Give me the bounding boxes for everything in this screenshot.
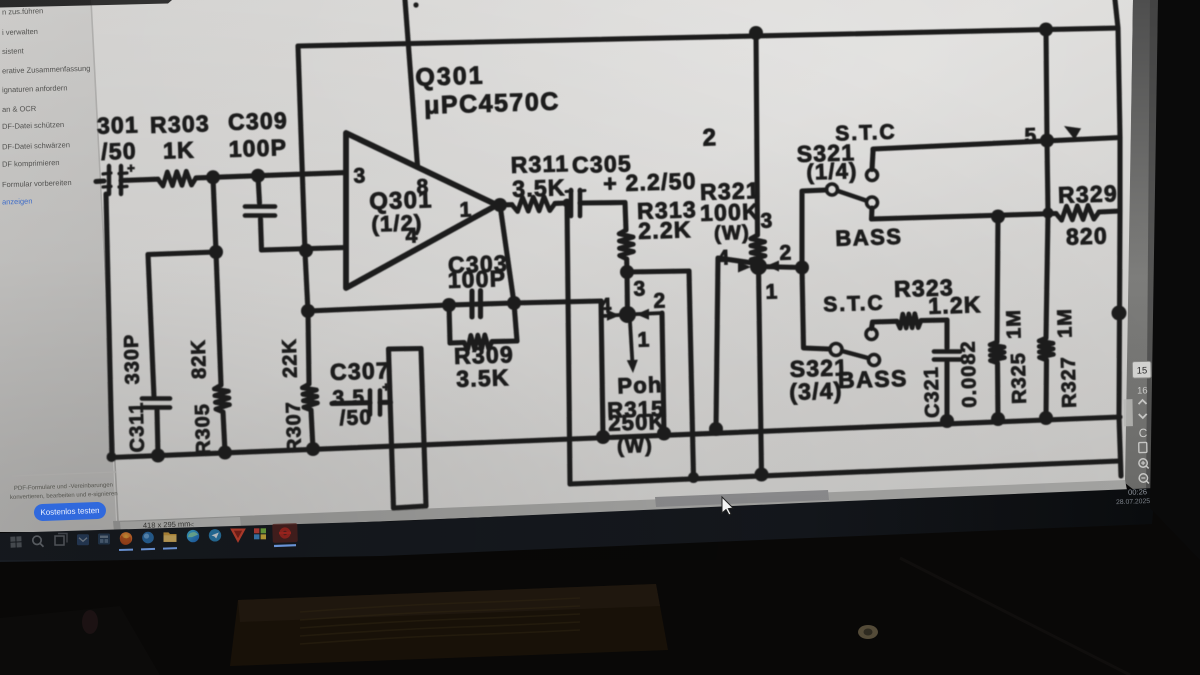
node op-amp output bbox=[493, 198, 507, 212]
label C305 value 2.2/50 bbox=[603, 168, 697, 197]
svg-text:3.5K: 3.5K bbox=[512, 174, 566, 202]
svg-text:2: 2 bbox=[702, 124, 717, 151]
wire C307 top jog bbox=[389, 346, 422, 352]
wire N1 stub right bbox=[628, 313, 663, 315]
label pin 4 bbox=[405, 224, 419, 247]
svg-text:418 x 295 mm: 418 x 295 mm bbox=[143, 519, 191, 530]
svg-text:330P: 330P bbox=[121, 333, 144, 384]
svg-text:(3/4): (3/4) bbox=[789, 377, 843, 405]
wire x690 drop bbox=[689, 271, 694, 478]
resistor R307 bbox=[302, 384, 317, 410]
resistor R323 bbox=[897, 314, 921, 329]
resistor R325 bbox=[990, 342, 1004, 363]
label Q301 (1/2) bbox=[371, 210, 423, 237]
resistor R329 bbox=[1056, 205, 1099, 220]
node R327-bus bbox=[1039, 411, 1053, 425]
node R305-bus bbox=[218, 446, 232, 460]
label R309 value 3.5K bbox=[456, 364, 510, 392]
wire STCb up-right bbox=[872, 321, 898, 328]
label S321 bbox=[796, 139, 855, 167]
arrow at top right bbox=[1064, 126, 1081, 140]
switch S321 (1/4) pole contact bbox=[827, 184, 838, 195]
svg-text:R307: R307 bbox=[283, 401, 306, 453]
switch S321 (3/4) pole contact bbox=[830, 344, 842, 356]
svg-text:1: 1 bbox=[765, 280, 779, 303]
node switch riser bbox=[795, 261, 809, 275]
label uPC4570C bbox=[424, 87, 561, 119]
wire C305 left drop bbox=[567, 203, 570, 484]
resistor R313 bbox=[619, 230, 633, 259]
label S.T.C (3/4) bbox=[823, 292, 885, 317]
svg-text:301: 301 bbox=[97, 111, 140, 138]
switch S321 (3/4) lever bbox=[842, 351, 868, 358]
svg-text:μPC4570C: μPC4570C bbox=[424, 87, 561, 119]
wire C305 to corner bbox=[580, 200, 625, 206]
label C301 value /50 bbox=[101, 138, 137, 165]
svg-text:(W): (W) bbox=[714, 222, 750, 245]
wire R325 top lead bbox=[997, 217, 998, 343]
capacitor C303 bbox=[472, 291, 481, 317]
wire R305 top lead bbox=[216, 252, 221, 385]
label pin 3 at R321 bbox=[760, 209, 774, 232]
label Q301 top bbox=[415, 62, 485, 92]
wire C321 top lead bbox=[944, 320, 949, 348]
pot wiper arrow bbox=[627, 322, 638, 373]
resistor R311 bbox=[512, 197, 555, 212]
svg-text:an & OCR: an & OCR bbox=[2, 104, 37, 114]
wire R313-node to x690 drop bbox=[627, 271, 689, 272]
wire lower bus bbox=[570, 461, 1119, 484]
label R305 value 82K bbox=[188, 339, 211, 379]
resistor R303 bbox=[158, 171, 196, 186]
svg-text:R325: R325 bbox=[1008, 352, 1031, 404]
wire N1 stub left bbox=[603, 315, 628, 317]
svg-text:3: 3 bbox=[760, 209, 774, 232]
switch S321 (3/4) throw STC bbox=[866, 329, 877, 340]
node pot right-bus bbox=[657, 427, 671, 441]
label C307 value 3.5 bbox=[332, 386, 366, 410]
capacitor C307 (electrolytic) bbox=[370, 379, 390, 414]
svg-text:1: 1 bbox=[459, 198, 473, 221]
wire C311 top lead bbox=[148, 255, 154, 398]
label R325 bbox=[1008, 352, 1031, 404]
node bus left corner bbox=[107, 452, 117, 462]
svg-text:C: C bbox=[1139, 426, 1148, 440]
resistor R305 bbox=[214, 385, 229, 412]
label BASS (3/4) bbox=[838, 365, 909, 393]
label 2 mid-top bbox=[702, 124, 717, 151]
svg-text:R327: R327 bbox=[1058, 356, 1081, 408]
svg-text:C321: C321 bbox=[921, 366, 944, 418]
svg-text:(W): (W) bbox=[617, 435, 653, 458]
wire input to R303 bbox=[121, 179, 158, 180]
wire C311 bottom lead bbox=[157, 409, 158, 455]
node BASS/R325 bbox=[991, 210, 1005, 224]
label R307 bbox=[283, 401, 306, 453]
node J4 V1/pin2 line bbox=[299, 244, 313, 258]
svg-text:3.5K: 3.5K bbox=[456, 364, 510, 392]
node lower bus / R321 vert bbox=[755, 468, 769, 482]
svg-text:1K: 1K bbox=[163, 137, 196, 164]
wire J1 to node J2 bbox=[213, 176, 258, 178]
wire C321 bottom lead bbox=[944, 361, 949, 421]
svg-text:R303: R303 bbox=[150, 110, 211, 138]
svg-text:sistent: sistent bbox=[2, 46, 25, 56]
label BASS bbox=[835, 224, 903, 251]
svg-text:S.T.C: S.T.C bbox=[835, 121, 897, 146]
node R325-bus bbox=[991, 412, 1005, 426]
node STC/R327 vertical bbox=[1040, 134, 1054, 148]
wire R303 to node J1 bbox=[196, 175, 213, 181]
wire R323 to C321 corner bbox=[921, 317, 947, 323]
arrow into N1 left bbox=[607, 310, 620, 321]
node R327/BASS crossing bbox=[1043, 208, 1054, 219]
node N1 pot wiper top bbox=[619, 306, 636, 323]
label pin 3 of pot bbox=[633, 277, 647, 300]
label pin 5 bbox=[1024, 124, 1038, 147]
wire BASS line to R329 bbox=[872, 214, 1057, 220]
svg-text:3: 3 bbox=[353, 164, 367, 187]
label S321 (3/4) name bbox=[789, 354, 848, 382]
wire corner down to R313 bbox=[625, 203, 626, 231]
switch S321 (1/4) throw BASS bbox=[867, 197, 878, 208]
svg-text:S.T.C: S.T.C bbox=[823, 292, 885, 317]
label C307 bbox=[330, 357, 391, 385]
node J1 bbox=[206, 170, 220, 184]
label C305 bbox=[572, 150, 633, 178]
svg-text:1.2K: 1.2K bbox=[928, 291, 982, 319]
wire N2 down to lower bus bbox=[759, 267, 762, 475]
svg-text:2: 2 bbox=[653, 289, 667, 312]
wire C307 bottom joiner bbox=[394, 506, 427, 508]
label R313 bbox=[637, 196, 698, 224]
wire R309 to loop right corner bbox=[492, 338, 517, 344]
wire loop left vertical bbox=[449, 305, 450, 343]
switch S321 (1/4) lever bbox=[838, 191, 866, 201]
svg-text:Poh: Poh bbox=[617, 372, 663, 398]
wire bus1 riser to N2 bbox=[716, 258, 753, 429]
wire input left tail bbox=[96, 178, 104, 184]
label R311 bbox=[510, 150, 569, 178]
label R303 value 1K bbox=[163, 137, 196, 164]
wire C307 right lead bbox=[380, 400, 391, 405]
node J5 V1/feedback line bbox=[301, 304, 315, 318]
wire R325 bottom lead bbox=[995, 363, 1001, 419]
svg-text:16: 16 bbox=[1137, 385, 1148, 396]
arrow into N2 left bbox=[738, 262, 751, 273]
wire top supply rail bbox=[298, 28, 1118, 46]
svg-text:anzeigen: anzeigen bbox=[2, 197, 33, 207]
label R327 bbox=[1058, 356, 1081, 408]
wire stray mark bbox=[413, 2, 418, 7]
svg-text:100P: 100P bbox=[228, 134, 287, 162]
label C321 bbox=[921, 366, 944, 418]
capacitor C309 bbox=[245, 207, 275, 216]
label Q301 inside bbox=[369, 186, 433, 215]
svg-text:28.07.2025: 28.07.2025 bbox=[1116, 498, 1150, 506]
node C311-bus bbox=[151, 449, 165, 463]
node pot left-bus bbox=[596, 430, 610, 444]
wire pot left rail bbox=[601, 301, 603, 437]
wire C307 left lead bbox=[332, 400, 370, 406]
label R315 (W) bbox=[617, 435, 653, 458]
wire R307 bottom lead bbox=[311, 410, 313, 449]
label pin 4 at N2 bbox=[717, 246, 731, 269]
label S.T.C bbox=[835, 121, 897, 146]
node R307-bus bbox=[306, 442, 320, 456]
node C305 left lead bbox=[563, 199, 572, 208]
svg-text:0.0082: 0.0082 bbox=[957, 340, 981, 408]
label R311 value 3.5K bbox=[512, 174, 566, 202]
label C303 bbox=[448, 250, 509, 278]
label R307 value 22K bbox=[279, 338, 302, 378]
svg-text:R305: R305 bbox=[192, 403, 215, 455]
wire N2 to switch riser bbox=[759, 267, 803, 268]
label pin 1 bbox=[459, 198, 473, 221]
label node 301 bbox=[97, 111, 140, 138]
svg-text:1M: 1M bbox=[1003, 309, 1026, 339]
arrow into N2 right bbox=[766, 261, 779, 272]
svg-text:/50: /50 bbox=[339, 406, 373, 430]
node riser-bus1 bbox=[709, 422, 723, 436]
label R321 bbox=[700, 177, 761, 205]
label C311 value 330P bbox=[121, 333, 144, 384]
svg-text:i verwalten: i verwalten bbox=[2, 27, 38, 37]
wire ground bus bbox=[110, 417, 1120, 458]
switch S321 (1/4) throw STC bbox=[867, 170, 878, 181]
wire C309 to op-amp pin2 bbox=[262, 248, 347, 251]
node R313 lower bbox=[620, 265, 634, 279]
svg-text:1M: 1M bbox=[1054, 308, 1077, 338]
label C307 value /50 bbox=[339, 406, 373, 430]
wire R305 bottom lead bbox=[223, 412, 225, 452]
wire J1 down to J3 bbox=[213, 177, 216, 252]
node top rail / R321 branch bbox=[749, 26, 763, 40]
capacitor C305 (electrolytic) bbox=[566, 190, 585, 216]
svg-text:5: 5 bbox=[1024, 124, 1038, 147]
svg-text:(1/2): (1/2) bbox=[371, 210, 423, 237]
label R325 value 1M bbox=[1003, 309, 1026, 339]
wire BASS throw down bbox=[869, 208, 875, 219]
node x690-bus2 bbox=[688, 472, 699, 483]
node loop left bbox=[442, 298, 456, 312]
label R321 value 100K bbox=[700, 198, 761, 226]
node J3 bbox=[209, 245, 223, 259]
label pin 1 at N1 bbox=[637, 328, 651, 351]
label C309 bbox=[228, 107, 289, 135]
label R309 bbox=[454, 341, 515, 369]
switch S321 (3/4) throw BASS bbox=[869, 355, 880, 366]
label pin 4 at N1 bbox=[599, 294, 613, 317]
wire riser up to S321a pole bbox=[802, 190, 826, 268]
label R323 value 1.2K bbox=[928, 291, 982, 319]
wire loop right vertical bbox=[514, 303, 517, 341]
node J2 bbox=[251, 169, 265, 183]
svg-text:BASS: BASS bbox=[835, 224, 903, 251]
label R305 bbox=[192, 403, 215, 455]
svg-text:BASS: BASS bbox=[838, 365, 909, 393]
node right vertical mid bbox=[1112, 306, 1127, 321]
wire pin-8 supply drop bbox=[405, 0, 418, 166]
wire rail corner down (V1) bbox=[298, 46, 309, 384]
label Poh bbox=[617, 372, 663, 398]
svg-text:3: 3 bbox=[633, 277, 647, 300]
wire J5 feedback line bbox=[308, 301, 601, 311]
wire R311 to C305 bbox=[555, 200, 566, 205]
label pin 8 bbox=[416, 175, 430, 198]
wire J3 left to C311 corner bbox=[148, 252, 216, 255]
wire pot right rail bbox=[662, 313, 664, 434]
wire right vertical bbox=[1115, 0, 1121, 476]
svg-text:n zus.führen: n zus.führen bbox=[2, 6, 44, 16]
svg-text:100P: 100P bbox=[447, 265, 506, 293]
label pin 1 at N2 bbox=[765, 280, 779, 303]
wire R313 to node bbox=[624, 259, 629, 272]
label S321 (1/4) bbox=[806, 158, 858, 185]
wire R321 branch vertical bbox=[756, 33, 758, 235]
svg-text:2: 2 bbox=[779, 241, 793, 264]
wire output to R311 bbox=[497, 202, 512, 207]
label R329 bbox=[1058, 180, 1119, 208]
svg-text:Q301: Q301 bbox=[415, 62, 485, 92]
wire J2 to op-amp pin3 bbox=[258, 173, 346, 176]
svg-text:R329: R329 bbox=[1058, 180, 1119, 208]
label C311 bbox=[126, 401, 149, 452]
connector J301 input jack bbox=[103, 160, 135, 194]
svg-text:<: < bbox=[190, 522, 194, 529]
wire C309 top lead bbox=[258, 176, 260, 203]
label R329 value 820 bbox=[1066, 222, 1109, 249]
resistor R309 bbox=[464, 335, 492, 350]
svg-text:2.2K: 2.2K bbox=[638, 216, 692, 244]
node loop right bbox=[507, 296, 521, 310]
svg-text:00:26: 00:26 bbox=[1128, 487, 1147, 497]
svg-text:(1/4): (1/4) bbox=[806, 158, 858, 185]
svg-text:15: 15 bbox=[1137, 365, 1148, 376]
label R315 bbox=[607, 396, 665, 423]
wire loop bottom to R309 bbox=[450, 340, 464, 346]
svg-text:82K: 82K bbox=[188, 339, 211, 379]
wire node to pot node N1 bbox=[624, 272, 630, 313]
label pin 2 at N1 bbox=[653, 289, 667, 312]
wire riser down to S321b bbox=[802, 268, 829, 350]
label C321 value 0.0082 bbox=[957, 340, 981, 408]
node N2 switch feed bbox=[750, 258, 767, 275]
node top rail / R327 branch bbox=[1039, 23, 1053, 37]
wire C309 bottom lead bbox=[261, 219, 262, 250]
label R327 value 1M bbox=[1054, 308, 1077, 338]
wire STC line bbox=[873, 138, 1120, 153]
label R321 (W) bbox=[714, 222, 750, 245]
wire R327 vertical upper bbox=[1046, 30, 1048, 339]
svg-text:/50: /50 bbox=[101, 138, 137, 165]
wire C307 vertical bbox=[389, 349, 394, 508]
label R313 value 2.2K bbox=[638, 216, 692, 244]
label pin 3 bbox=[353, 164, 367, 187]
label R303 bbox=[150, 110, 211, 138]
label C303 value 100P bbox=[447, 265, 506, 293]
wire input ground drop bbox=[106, 194, 112, 458]
label R323 bbox=[894, 274, 955, 302]
resistor R321 bbox=[751, 235, 766, 263]
resistor R327 bbox=[1039, 338, 1053, 360]
svg-text:820: 820 bbox=[1066, 222, 1109, 249]
label S321 (3/4) bbox=[789, 377, 843, 405]
wire R329 to right rail bbox=[1099, 211, 1120, 212]
svg-text:1: 1 bbox=[637, 328, 651, 351]
capacitor C321 bbox=[934, 352, 960, 360]
wire STC throw up bbox=[872, 152, 873, 170]
svg-text:+ 2.2/50: + 2.2/50 bbox=[603, 168, 697, 197]
svg-text:DF komprimieren: DF komprimieren bbox=[2, 158, 60, 169]
capacitor C311 bbox=[142, 399, 170, 408]
wire R327 bottom lead bbox=[1043, 360, 1049, 418]
op-amp U301 triangle bbox=[346, 133, 497, 288]
svg-text:22K: 22K bbox=[279, 338, 302, 378]
label R315 value 250K bbox=[608, 409, 666, 436]
node C321-bus bbox=[940, 414, 954, 428]
wire C307 second vertical bbox=[421, 349, 426, 507]
wire bus1 right end bbox=[0, 0, 1, 1]
svg-text:C311: C311 bbox=[126, 401, 149, 452]
svg-text:C309: C309 bbox=[228, 107, 289, 135]
label C309 value 100P bbox=[228, 134, 287, 162]
label pin 2 at N2 bbox=[779, 241, 793, 264]
arrow into N1 right bbox=[636, 309, 649, 320]
wire output down to loop bbox=[500, 205, 514, 303]
